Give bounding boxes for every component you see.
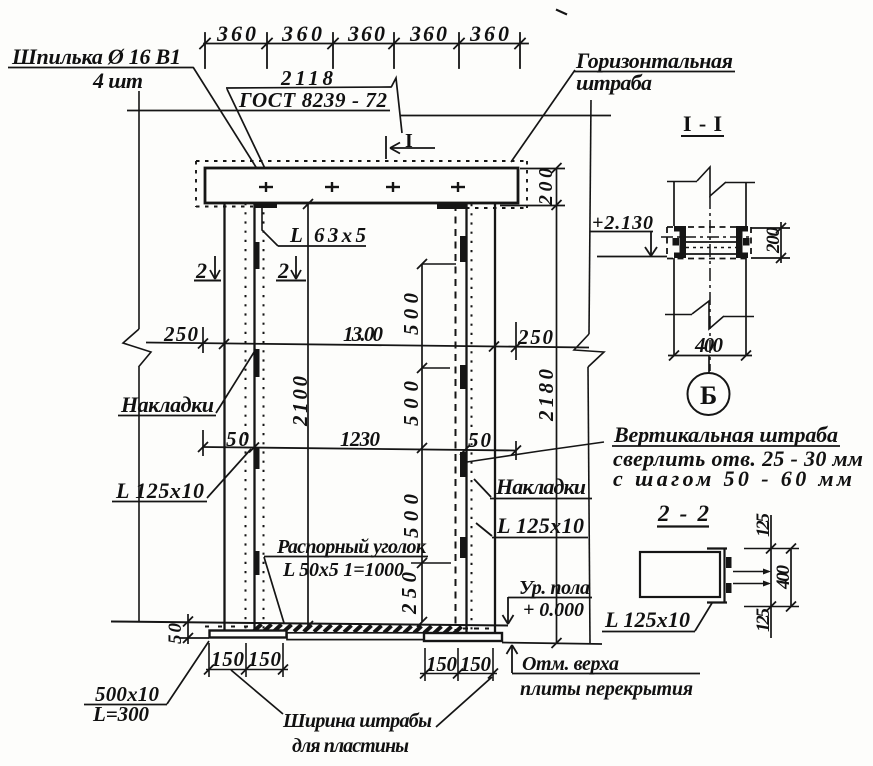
svg-text:2: 2 <box>277 258 289 283</box>
svg-text:L 125x10: L 125x10 <box>115 478 204 503</box>
leader of ГОСТ label to beam <box>227 89 281 202</box>
label Ширина штрабы для пластины <box>231 670 283 714</box>
svg-text:для пластины: для пластины <box>292 735 409 757</box>
svg-text:Распорный уголок: Распорный уголок <box>276 536 427 558</box>
svg-text:360: 360 <box>281 21 322 46</box>
right jamb weld plate bars (накладки) <box>460 236 466 558</box>
top dimension extension ticks <box>205 33 520 68</box>
2118 dim line <box>226 87 391 88</box>
right wall edge with break <box>574 100 604 643</box>
svg-text:ГОСТ 8239 - 72: ГОСТ 8239 - 72 <box>238 88 388 112</box>
plus marks (шпильки) on beam <box>259 182 465 192</box>
I-I beam web lines <box>686 241 736 243</box>
svg-text:50: 50 <box>226 427 250 451</box>
svg-text:L=300: L=300 <box>92 702 150 726</box>
svg-text:250: 250 <box>163 322 199 346</box>
top dim slash ticks <box>200 39 525 49</box>
dim line 250/1300/250 <box>146 343 589 348</box>
node circle Б <box>708 356 710 373</box>
leader Горизонтальная штраба <box>511 70 575 162</box>
svg-text:400: 400 <box>694 333 724 357</box>
2-2 dims 125/400/125 <box>770 515 772 638</box>
label L 125x10 (right) <box>476 523 492 536</box>
svg-text:125: 125 <box>753 608 774 633</box>
svg-text:Ур. пола: Ур. пола <box>519 577 590 599</box>
svg-text:500: 500 <box>399 381 423 427</box>
svg-text:+ 0.000: + 0.000 <box>523 599 584 621</box>
svg-text:50: 50 <box>468 428 492 452</box>
middle spacer plate <box>287 633 424 640</box>
svg-text:360: 360 <box>216 21 256 46</box>
svg-text:500: 500 <box>399 293 423 336</box>
scan speck <box>557 10 566 14</box>
black chase marks under beam <box>254 203 277 209</box>
svg-text:50: 50 <box>165 623 186 645</box>
floor top line <box>111 622 508 626</box>
mark Отм. верха плиты перекрытия <box>511 645 513 673</box>
I-I wall top break <box>667 167 755 196</box>
svg-text:Шпилька Ø 16 В1: Шпилька Ø 16 В1 <box>11 44 181 69</box>
right base plate 500x10 <box>424 633 502 641</box>
wall top line left <box>127 110 390 112</box>
svg-text:Отм. верха: Отм. верха <box>522 653 619 675</box>
svg-text:360: 360 <box>409 21 447 46</box>
svg-text:I: I <box>405 130 413 152</box>
svg-text:150: 150 <box>248 647 282 671</box>
right jamb angle inner line <box>465 204 467 633</box>
I-I beam right flange <box>736 226 750 258</box>
break jog on wall top line <box>391 78 402 133</box>
svg-text:I - I: I - I <box>683 111 722 136</box>
svg-text:Б: Б <box>700 381 717 410</box>
I-I dim 400 <box>668 355 752 357</box>
svg-text:Накладки: Накладки <box>120 392 214 417</box>
dims 150 150 right plate <box>420 648 497 681</box>
svg-text:L 50x5 1=1000: L 50x5 1=1000 <box>282 559 404 581</box>
left jamb weld plate bars (накладки) <box>254 242 260 575</box>
right jamb angle outer line <box>494 203 496 633</box>
leader L63x5 <box>262 205 278 246</box>
svg-text:штраба: штраба <box>576 70 652 95</box>
svg-text:360: 360 <box>469 21 509 46</box>
svg-text:L 125x10: L 125x10 <box>604 607 690 632</box>
I-I chase dashed rectangle <box>667 227 751 259</box>
svg-text:150: 150 <box>460 652 492 676</box>
svg-text:4 шт: 4 шт <box>92 68 143 93</box>
section mark I at beam <box>386 136 435 159</box>
svg-text:200: 200 <box>535 168 557 206</box>
I-I wall verticals <box>674 182 746 355</box>
top dimension line 5x360 <box>204 43 528 45</box>
left jamb dotted chase line <box>245 203 247 631</box>
plate bottom line extension to right <box>502 643 602 645</box>
I-I wall bottom break <box>665 301 754 329</box>
2-2 wall rectangle <box>640 552 720 597</box>
svg-text:150: 150 <box>211 647 245 671</box>
svg-text:L 125x10: L 125x10 <box>496 513 584 538</box>
right jamb dash-dot chase line <box>455 204 457 633</box>
label Вертикальная штраба, сверлить отв. <box>467 442 604 462</box>
dim 2100 vertical line <box>307 204 309 626</box>
svg-text:250: 250 <box>517 325 554 349</box>
I-I dim 200 <box>751 227 790 229</box>
svg-text:360: 360 <box>347 21 385 46</box>
left wall edge with break <box>123 91 151 621</box>
svg-text:2 - 2: 2 - 2 <box>657 501 709 526</box>
svg-text:150: 150 <box>426 652 458 676</box>
dotted remnants at floor level <box>205 626 250 628</box>
floor chase hatched strip (распорный уголок) <box>254 624 462 633</box>
top dim texts 360 <box>216 21 509 46</box>
svg-text:Вертикальная штраба: Вертикальная штраба <box>613 422 838 447</box>
left jamb dotted line 2 <box>263 203 265 631</box>
svg-text:1230: 1230 <box>340 427 381 451</box>
I-I beam left flange <box>673 226 687 258</box>
right jamb dotted line <box>471 204 473 633</box>
svg-text:200: 200 <box>763 227 784 255</box>
2-2 weld plates <box>726 557 732 568</box>
leader to spacer angle at floor <box>264 557 284 623</box>
wall top line right <box>400 115 611 117</box>
left jamb angle L125x10 outer line <box>223 203 225 631</box>
label Накладки (right) <box>474 479 491 497</box>
svg-text:Накладки: Накладки <box>495 474 586 499</box>
dim line 50/1230/50 <box>203 447 516 451</box>
2-2 angle L125x10 <box>707 548 727 603</box>
svg-text:2: 2 <box>195 258 207 283</box>
dim 50 at left floor <box>187 614 189 644</box>
dims 150 150 left plate <box>206 643 288 677</box>
svg-text:плиты перекрытия: плиты перекрытия <box>520 678 693 700</box>
left jamb angle inner line <box>253 203 255 631</box>
dim column 500/500/500/250 <box>421 264 423 622</box>
left base plate 500x10 <box>210 631 287 638</box>
dotted chase outline around lintel <box>196 161 527 208</box>
svg-text:500: 500 <box>399 494 423 539</box>
svg-text:13.00: 13.00 <box>343 322 384 346</box>
svg-text:125: 125 <box>753 513 774 538</box>
svg-text:Ширина штрабы: Ширина штрабы <box>282 710 432 732</box>
leader from Шпилька to plus mark <box>193 67 266 183</box>
I-I centre axis dash-dot <box>709 196 711 371</box>
dim 200 right of beam <box>520 168 565 170</box>
lintel beam I-beam 2118 <box>205 168 518 203</box>
svg-text:400: 400 <box>773 565 794 591</box>
